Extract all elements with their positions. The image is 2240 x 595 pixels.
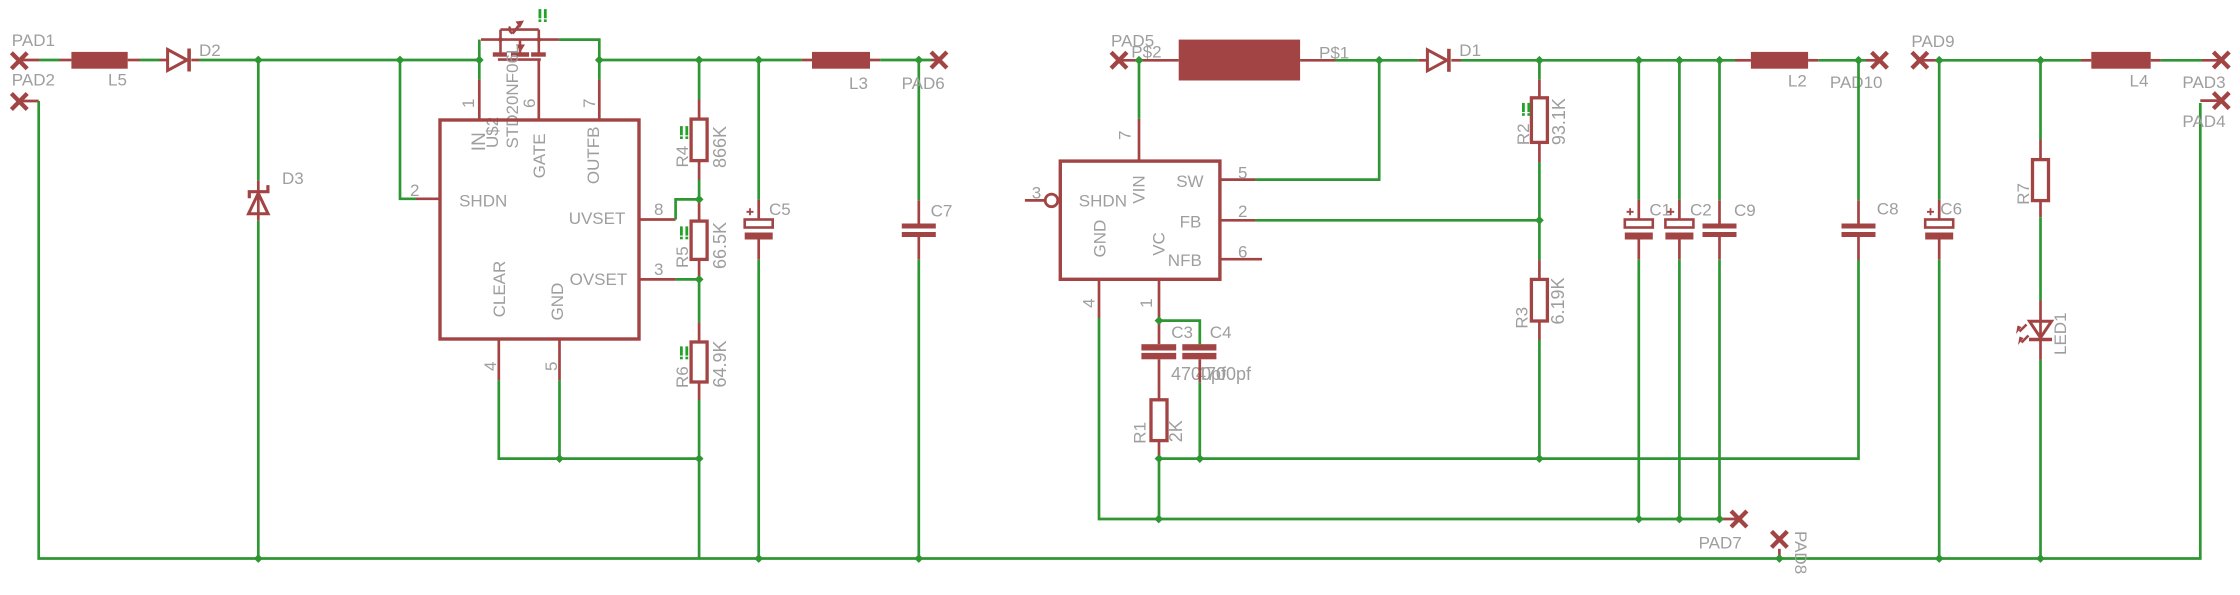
svg-text:4: 4 (481, 362, 500, 371)
wire (698, 259, 701, 276)
wire (639, 278, 676, 281)
wire (870, 59, 880, 62)
wire (1538, 340, 1541, 459)
op-amp U$2 box (440, 120, 639, 339)
wire (1538, 260, 1541, 279)
wire (1866, 59, 1880, 62)
resistor R1 (1151, 400, 1167, 441)
svg-text:R7: R7 (2014, 183, 2033, 205)
inductor L4 (2091, 52, 2150, 69)
wire (880, 59, 931, 62)
junction (555, 454, 564, 463)
capacitor C4 (1182, 344, 1216, 359)
wire (1939, 59, 2081, 62)
svg-text:R6: R6 (673, 366, 692, 388)
junction (254, 554, 263, 563)
svg-text:R1: R1 (1130, 422, 1149, 444)
capacitor C5 (745, 208, 773, 239)
wire (1158, 441, 1161, 459)
wire (558, 380, 561, 458)
svg-text:NFB: NFB (1168, 251, 1202, 270)
svg-text:5: 5 (1238, 164, 1247, 183)
capacitor C1 (1625, 208, 1653, 239)
wire (1678, 60, 1681, 199)
wire (1857, 200, 1860, 223)
svg-text:PAD10: PAD10 (1830, 73, 1883, 92)
wire (140, 59, 160, 62)
svg-text:C8: C8 (1877, 200, 1899, 219)
svg-text:PAD2: PAD2 (12, 71, 55, 90)
wire (160, 59, 168, 62)
wire (917, 237, 920, 260)
inversion bubble pin 3 (1045, 194, 1058, 207)
svg-text:1: 1 (1137, 298, 1156, 307)
svg-text:2: 2 (1238, 202, 1247, 221)
junction (1155, 316, 1164, 325)
pad PAD10 (1872, 52, 1888, 68)
svg-text:PAD6: PAD6 (902, 74, 945, 93)
wire (639, 218, 676, 221)
svg-text:2K: 2K (1166, 420, 1186, 442)
wire (1678, 240, 1681, 260)
junction (595, 56, 604, 65)
svg-text:VIN: VIN (1129, 175, 1148, 203)
capacitor C9 (1703, 224, 1737, 238)
wire (1718, 60, 1721, 200)
junction (396, 56, 405, 65)
wire (497, 339, 500, 380)
junction (2036, 56, 2045, 65)
transformer L1 (1179, 40, 1300, 81)
svg-text:1: 1 (459, 99, 478, 108)
junction (1135, 56, 1144, 65)
wire (917, 60, 920, 200)
junction (1195, 454, 1204, 463)
wire (257, 60, 260, 180)
R2 marker (1522, 103, 1530, 116)
svg-text:UVSET: UVSET (569, 209, 626, 228)
wire (2151, 59, 2161, 62)
wire (1138, 119, 1141, 161)
pad PAD5 (1111, 52, 1127, 68)
svg-text:3: 3 (654, 260, 663, 279)
wire (1678, 200, 1681, 220)
junction (536, 36, 542, 42)
capacitor C8 (1842, 224, 1876, 238)
inductor L3 (812, 52, 870, 69)
junction (695, 195, 704, 204)
svg-text:6: 6 (1238, 243, 1247, 262)
svg-text:7: 7 (580, 99, 599, 108)
junction (695, 454, 704, 463)
wire (1461, 59, 1735, 62)
wire (1159, 260, 1859, 459)
svg-text:R2: R2 (1514, 123, 1533, 145)
svg-text:R3: R3 (1513, 307, 1532, 329)
svg-text:SW: SW (1176, 172, 1203, 191)
wire (1538, 162, 1541, 260)
svg-text:SHDN: SHDN (459, 192, 507, 211)
wire (191, 59, 199, 62)
svg-text:C6: C6 (1940, 200, 1962, 219)
wire (1158, 359, 1161, 400)
wire (478, 80, 481, 120)
wire (698, 322, 701, 342)
U$2 marker (539, 9, 547, 22)
wire (1938, 240, 1941, 260)
diode D1 (1427, 49, 1449, 72)
wire (698, 199, 701, 221)
wire (1025, 199, 1045, 202)
wire (1158, 459, 1161, 519)
svg-text:C2: C2 (1690, 201, 1712, 220)
wire (478, 40, 481, 80)
svg-text:866K: 866K (710, 126, 730, 168)
svg-text:66.5K: 66.5K (710, 222, 730, 269)
wire (1418, 59, 1427, 62)
svg-text:PAD1: PAD1 (12, 31, 55, 50)
diode D2 (168, 49, 190, 72)
svg-text:C1: C1 (1649, 201, 1671, 220)
wire (698, 161, 701, 180)
wire (931, 59, 939, 62)
wire (1255, 60, 1379, 179)
wire (400, 60, 416, 199)
svg-text:D2: D2 (199, 41, 221, 60)
junction (497, 36, 503, 42)
wire (1538, 142, 1541, 162)
wire (499, 380, 699, 458)
svg-text:OVSET: OVSET (570, 270, 628, 289)
svg-text:GND: GND (548, 283, 567, 321)
transistor U$2 STD20NF06L (481, 21, 559, 121)
svg-text:PAD4: PAD4 (2182, 112, 2225, 131)
junction (1775, 554, 1784, 563)
svg-text:C5: C5 (769, 200, 791, 219)
wire (698, 276, 701, 279)
svg-text:C3: C3 (1171, 323, 1193, 342)
svg-text:D3: D3 (282, 169, 304, 188)
wire (698, 382, 701, 400)
svg-text:93.1K: 93.1K (1549, 98, 1569, 145)
R4 marker (680, 126, 688, 139)
wire (802, 59, 812, 62)
wire (39, 59, 60, 62)
junction (914, 554, 923, 563)
pad PAD1 (11, 53, 27, 69)
svg-text:3: 3 (1032, 184, 1041, 203)
wire (1220, 219, 1255, 222)
wire (2039, 360, 2042, 559)
wire (1818, 59, 1866, 62)
capacitor C2 (1665, 208, 1693, 239)
wire (676, 278, 700, 281)
wire (2202, 59, 2221, 62)
capacitor C7 (902, 224, 936, 238)
svg-text:R4: R4 (673, 146, 692, 168)
wire (2081, 59, 2091, 62)
pad PAD8 (1772, 531, 1788, 547)
wire (1538, 60, 1541, 79)
wire (1735, 59, 1751, 62)
R6 marker (680, 346, 688, 359)
resistor R7 (2033, 160, 2049, 201)
junction (1634, 515, 1643, 524)
wire (1808, 59, 1818, 62)
LED LED1 (2016, 301, 2052, 360)
svg-text:LED1: LED1 (2051, 312, 2070, 355)
wire (257, 221, 260, 559)
junction (754, 554, 763, 563)
capacitor C3 (1141, 344, 1176, 359)
wire (1723, 518, 1740, 521)
wire (19, 100, 38, 103)
junction (1155, 454, 1164, 463)
junction (2036, 554, 2045, 563)
zener diode D3 (249, 180, 269, 220)
wire (1099, 318, 1723, 519)
junction (914, 56, 923, 65)
wire (1637, 260, 1640, 519)
svg-text:OUTFB: OUTFB (584, 126, 603, 184)
junction (695, 275, 704, 284)
svg-text:IN: IN (469, 132, 490, 151)
wire (1718, 237, 1721, 260)
svg-text:FB: FB (1180, 212, 1202, 231)
svg-text:L4: L4 (2130, 72, 2149, 91)
junction (1715, 56, 1724, 65)
junction (1535, 56, 1544, 65)
wire (698, 279, 701, 322)
pad PAD7 (1731, 511, 1747, 527)
svg-text:P$2: P$2 (1131, 43, 1161, 62)
wire (416, 197, 440, 200)
wire (598, 80, 601, 120)
capacitor C6 (1925, 208, 1953, 239)
wire (1538, 80, 1541, 98)
svg-text:L2: L2 (1788, 71, 1807, 90)
wire (128, 59, 140, 62)
junction (1154, 515, 1163, 524)
wire (60, 59, 72, 62)
wire (1637, 240, 1640, 260)
wire (1220, 258, 1262, 261)
svg-text:R5: R5 (673, 246, 692, 268)
wire (1198, 382, 1201, 458)
wire (2039, 140, 2042, 160)
resistor R5 (691, 221, 707, 259)
wire (1857, 237, 1860, 260)
wire (2039, 201, 2042, 218)
wire (1938, 200, 1941, 220)
svg-text:CLEAR: CLEAR (490, 261, 509, 318)
wire (1158, 321, 1161, 345)
wire (1857, 60, 1860, 200)
wire (1538, 321, 1541, 340)
svg-text:L3: L3 (849, 74, 868, 93)
op-amp U1 box (1060, 161, 1220, 279)
junction (1535, 216, 1544, 225)
resistor R6 (691, 342, 707, 382)
wire (917, 260, 920, 559)
svg-text:PAD3: PAD3 (2182, 73, 2225, 92)
pad PAD3 (2213, 52, 2229, 68)
wire (1637, 200, 1640, 220)
svg-text:4700pf: 4700pf (1196, 364, 1252, 384)
pad PAD2 (11, 94, 27, 110)
wire (1778, 549, 1781, 559)
svg-text:C4: C4 (1210, 323, 1232, 342)
wire (698, 60, 701, 100)
wire (1098, 279, 1101, 318)
svg-text:GND: GND (1091, 220, 1110, 258)
svg-text:GATE: GATE (530, 133, 549, 178)
svg-text:64.9K: 64.9K (710, 340, 730, 387)
pad PAD4 (2213, 93, 2229, 109)
svg-text:L5: L5 (108, 71, 127, 90)
wire (1938, 260, 1941, 559)
svg-text:SHDN: SHDN (1079, 192, 1127, 211)
svg-text:PAD7: PAD7 (1699, 534, 1742, 553)
inductor L2 (1751, 52, 1808, 69)
junction (1854, 56, 1863, 65)
wire (2039, 60, 2042, 139)
wire (757, 260, 760, 559)
junction (1675, 515, 1684, 524)
junction (254, 56, 263, 65)
resistor R3 (1531, 279, 1547, 321)
svg-text:C9: C9 (1734, 201, 1756, 220)
junction (1675, 56, 1684, 65)
pad PAD6 (931, 52, 947, 68)
wire (1678, 260, 1681, 519)
junction (1375, 56, 1384, 65)
wire (698, 180, 701, 199)
wire (1198, 359, 1201, 382)
svg-text:PAD8: PAD8 (1791, 531, 1810, 574)
wire (1920, 59, 1939, 62)
svg-text:8: 8 (654, 200, 663, 219)
R5 marker (680, 226, 688, 239)
svg-text:PAD9: PAD9 (1911, 32, 1954, 51)
resistor R2 (1531, 98, 1547, 143)
wire (2161, 59, 2202, 62)
wire (1220, 178, 1255, 181)
wire (757, 200, 760, 220)
svg-text:C7: C7 (931, 202, 953, 221)
wire (2039, 217, 2042, 300)
wire (698, 400, 701, 559)
svg-text:VC: VC (1149, 232, 1168, 256)
wire (1718, 260, 1721, 519)
wire (676, 199, 700, 219)
junction (1535, 454, 1544, 463)
junction (695, 56, 704, 65)
svg-text:7: 7 (1116, 131, 1135, 140)
wire (599, 59, 802, 62)
svg-text:D1: D1 (1459, 41, 1481, 60)
svg-text:4: 4 (1080, 298, 1099, 307)
junction (475, 56, 484, 65)
wire (19, 59, 39, 62)
wire (1637, 60, 1640, 199)
svg-text:STD20NF06L: STD20NF06L (503, 45, 522, 149)
wire (917, 200, 920, 223)
inductor L5 (71, 52, 127, 69)
svg-text:5: 5 (542, 362, 561, 371)
wire (698, 100, 701, 120)
wire (1159, 321, 1200, 345)
wire (1300, 59, 1335, 62)
wire (1335, 59, 1418, 62)
wire (1139, 59, 1179, 62)
wire (1119, 59, 1139, 62)
wire (2200, 99, 2221, 102)
wire (39, 101, 2201, 559)
junction (1935, 554, 1944, 563)
junction (754, 56, 763, 65)
svg-text:2: 2 (410, 181, 419, 200)
svg-text:6.19K: 6.19K (1548, 277, 1568, 324)
pad PAD9 (1912, 52, 1928, 68)
svg-text:6: 6 (520, 99, 539, 108)
junction (1715, 515, 1724, 524)
wire (1158, 279, 1161, 320)
junction (1634, 56, 1643, 65)
wire (757, 240, 760, 260)
wire (1451, 59, 1461, 62)
wire (757, 60, 760, 200)
wire (1938, 60, 1941, 199)
wire (559, 40, 599, 80)
wire (1718, 200, 1721, 223)
wire (199, 59, 479, 62)
wire (558, 339, 561, 380)
wire (1255, 219, 1539, 222)
resistor R4 (691, 119, 707, 161)
wire (1138, 60, 1141, 119)
junction (1935, 56, 1944, 65)
